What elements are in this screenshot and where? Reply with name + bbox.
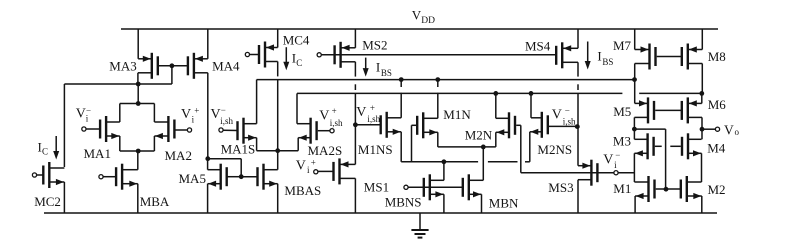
transistor M5 xyxy=(634,97,654,123)
svg-text:V: V xyxy=(552,107,562,122)
transistor MA1 xyxy=(100,116,120,142)
wire MS4 drain drop seg2 xyxy=(577,84,579,90)
transistor M3 xyxy=(634,133,653,159)
wire MA2 source drop xyxy=(153,136,155,151)
wire MS3 source to ground xyxy=(577,180,579,213)
svg-text:MS4: MS4 xyxy=(525,39,551,54)
svg-text:M8: M8 xyxy=(708,49,726,64)
svg-text:BS: BS xyxy=(381,68,392,78)
wire source bus y150.7 xyxy=(257,150,299,152)
wire MBNS drain riser xyxy=(443,162,445,181)
wire MA1S drain riser xyxy=(256,80,258,124)
wire MBAS gate lead xyxy=(241,176,257,178)
terminal MC4 gate bias xyxy=(245,52,249,56)
wire M7 drain to M5 xyxy=(634,64,636,104)
wire MA5 gate lead xyxy=(227,176,241,178)
svg-text:I: I xyxy=(376,60,380,75)
wire MS2 drain drop seg3 xyxy=(354,93,356,164)
svg-text:−: − xyxy=(221,105,226,115)
svg-text:−: − xyxy=(565,105,570,115)
node MA1/MA2 drain junction xyxy=(136,101,141,106)
svg-text:+: + xyxy=(194,105,199,115)
svg-text:V: V xyxy=(296,159,306,174)
wire M1N gate lead xyxy=(412,124,418,126)
wire MBNS/MBN gate lead xyxy=(408,186,463,188)
wire M1NS drain riser seg2 xyxy=(400,93,402,118)
terminal V_i- (MS3 gate) xyxy=(614,171,618,175)
svg-text:V: V xyxy=(412,8,422,23)
wire M2N gate drop xyxy=(520,125,522,172)
svg-text:I: I xyxy=(597,49,601,64)
wire M1NS gate lead xyxy=(355,124,380,126)
svg-text:V: V xyxy=(319,109,329,124)
wire M2N gate to MS3 gate / V_i- xyxy=(521,172,614,174)
transistor M1N xyxy=(417,112,438,138)
wire M8 drain drop xyxy=(701,64,703,94)
svg-text:i,sh: i,sh xyxy=(563,117,576,127)
node bus2/M8 junction xyxy=(699,91,704,96)
svg-text:V: V xyxy=(76,106,86,121)
transistor M8 xyxy=(682,44,703,70)
wire MBN source to ground xyxy=(481,194,483,213)
wire to MA5/MBAS gates xyxy=(208,158,241,160)
wire MS4 drain drop seg1 xyxy=(577,62,579,76)
svg-text:+: + xyxy=(370,103,375,113)
wire V_i,sh- gate lead xyxy=(223,129,237,131)
node tail junction xyxy=(481,145,486,150)
wire MC2 gate lead xyxy=(37,174,44,176)
svg-text:MA3: MA3 xyxy=(109,58,136,73)
wire M1N/M2N source bus xyxy=(438,146,496,148)
transistor MBAS xyxy=(258,164,278,190)
wire MA4 drain drop xyxy=(207,73,209,159)
wire MA2 drain riser xyxy=(153,104,155,123)
transistor M2N xyxy=(496,112,515,138)
svg-text:MC4: MC4 xyxy=(283,32,310,47)
wire M5 source drop xyxy=(633,117,635,129)
wire bus1 xyxy=(257,79,635,81)
wire MS4 drain drop seg3 xyxy=(577,93,579,166)
transistor MBN xyxy=(463,174,484,200)
transistor MBA xyxy=(116,164,138,190)
terminal MBNS/MBN gate bias xyxy=(404,185,408,189)
wire MA2S drain riser xyxy=(296,93,298,123)
wire MA3 drain drop xyxy=(137,73,139,84)
wire M2N source riser xyxy=(495,132,497,147)
svg-text:i,sh: i,sh xyxy=(367,114,380,124)
wire MC4 gate lead xyxy=(250,54,260,56)
svg-text:M1NS: M1NS xyxy=(358,142,393,157)
transistor MA1S xyxy=(238,118,257,144)
wire M7 source riser xyxy=(634,29,636,50)
wire V_i- to M1 drain xyxy=(618,172,634,174)
transistor MS2 xyxy=(335,42,356,68)
wire M4 gate stub xyxy=(670,145,681,147)
transistor M6 xyxy=(682,97,702,123)
svg-text:MA2S: MA2S xyxy=(308,143,343,158)
wire V_i,sh+ gate lead xyxy=(318,130,330,132)
svg-text:M5: M5 xyxy=(613,104,631,119)
wire MBNS drain bus seg2 xyxy=(488,161,518,163)
wire MA4 source riser xyxy=(207,29,209,59)
wire V_i- gate lead xyxy=(86,128,101,130)
wire V_DD rail xyxy=(121,28,718,30)
wire gate riser xyxy=(240,159,242,177)
node M1NS gate junction xyxy=(353,122,358,127)
wire MS2 source riser xyxy=(354,29,356,48)
wire MA1/MA2 top bus xyxy=(120,103,155,105)
svg-text:i,sh: i,sh xyxy=(330,118,343,128)
wire MC4 drain drop (below bus1) xyxy=(277,79,279,150)
svg-text:BS: BS xyxy=(602,57,613,67)
svg-text:−: − xyxy=(86,105,91,115)
wire MA2S source drop xyxy=(297,138,299,151)
node bus2/M2NS junction xyxy=(529,91,534,96)
wire M4 source to M2 drain xyxy=(701,153,703,182)
node M5/M3 junction xyxy=(632,127,637,132)
wire to MA5 drain xyxy=(207,159,209,170)
wire M2 source to ground xyxy=(701,196,703,213)
wire M1N drain riser seg2 xyxy=(437,93,439,119)
svg-text:MS1: MS1 xyxy=(364,179,389,194)
svg-text:V: V xyxy=(356,105,366,120)
svg-text:M4: M4 xyxy=(707,140,726,155)
node M1/M2 gate junction xyxy=(664,187,669,192)
transistor MA4 xyxy=(188,53,208,79)
svg-text:MA1: MA1 xyxy=(84,146,111,161)
node bus1/M7 junction xyxy=(632,77,637,82)
transistor MS4 xyxy=(556,42,578,68)
svg-text:C: C xyxy=(296,58,302,68)
wire MA1 drain riser xyxy=(119,104,121,123)
transistor MBNS xyxy=(424,174,444,200)
wire M7/M8 gate lead xyxy=(657,56,681,58)
svg-text:MA4: MA4 xyxy=(212,58,240,73)
terminal V_i+ input (MA2 gate) xyxy=(187,128,191,132)
wire V_i+ gate lead xyxy=(318,170,334,172)
transistor M4 xyxy=(682,133,702,159)
svg-text:M7: M7 xyxy=(613,38,632,53)
wire gate-to-drain cross drop xyxy=(171,66,173,84)
terminal V_i- input (MA1 gate) xyxy=(82,127,86,131)
transistor MA5 xyxy=(208,164,227,190)
current arrow I_BS (MS2) xyxy=(365,58,367,72)
terminal V_o output xyxy=(715,127,719,131)
wire MC2 source to ground xyxy=(63,182,65,213)
svg-text:−: − xyxy=(615,150,620,160)
node MA4/MA5 drain junction xyxy=(205,156,210,161)
node bus1/M1NS junction xyxy=(399,77,404,82)
wire M2NS drain riser xyxy=(530,93,532,117)
current arrow I_C (MC2) xyxy=(55,136,57,154)
svg-text:MC2: MC2 xyxy=(34,194,61,209)
transistor M2 xyxy=(681,176,702,202)
wire MBA source to ground xyxy=(137,184,139,213)
wire M1NS source drop xyxy=(400,132,402,162)
node bus1/M1N junction xyxy=(435,77,440,82)
node MA5/MBAS gate junction xyxy=(239,174,244,179)
wire MA5 source to ground xyxy=(207,184,209,213)
svg-text:MS3: MS3 xyxy=(548,180,573,195)
wire MBNS drain bus seg3 xyxy=(525,161,530,163)
transistor M2NS xyxy=(530,112,548,138)
wire MS1 source to ground xyxy=(354,178,356,213)
wire MC4 drain drop (above bus1) xyxy=(277,62,279,77)
wire M5/M6 gate lead xyxy=(655,109,681,111)
node MA3/MA4 gate junction xyxy=(170,63,175,68)
wire M2NS gate lead xyxy=(549,125,577,127)
ground xyxy=(411,213,428,238)
wire M3 source to M1 drain xyxy=(633,153,635,182)
wire to V_o xyxy=(702,128,715,130)
wire tail to MBA xyxy=(137,151,139,170)
transistor MC2 xyxy=(43,162,64,188)
wire MA1S source drop xyxy=(256,138,258,151)
node bus2/M2N junction xyxy=(493,91,498,96)
wire bus2 right part xyxy=(639,92,702,94)
svg-text:M2N: M2N xyxy=(465,127,493,142)
wire to MBAS drain xyxy=(277,151,279,170)
wire V_i+ gate lead xyxy=(175,129,187,131)
node MA1/MA2 source junction xyxy=(136,149,141,154)
svg-text:V: V xyxy=(724,123,734,138)
wire MA1 source drop xyxy=(119,136,121,151)
node M2NS gate / MS4 drain junction xyxy=(575,124,580,129)
terminal V_i,sh- (MA1S gate) xyxy=(219,128,223,132)
wire M1NS drain riser seg1 xyxy=(400,80,402,87)
wire M4 drain riser xyxy=(701,129,703,139)
svg-text:V: V xyxy=(181,107,191,122)
wire M3 drain riser xyxy=(633,129,635,139)
terminal MS2/MS4 gate bias xyxy=(317,53,321,57)
transistor M1NS xyxy=(381,112,402,138)
svg-text:MBNS: MBNS xyxy=(385,195,422,210)
transistor MS1 xyxy=(334,158,356,184)
svg-text:i,sh: i,sh xyxy=(220,116,233,126)
svg-text:M2: M2 xyxy=(708,182,726,197)
wire MA1/MA2 source bus xyxy=(120,150,155,152)
svg-text:M2NS: M2NS xyxy=(537,142,572,157)
wire MC4 source riser xyxy=(277,29,279,48)
wire M1N gate drop xyxy=(411,125,413,162)
wire M6 drain riser xyxy=(701,93,703,103)
svg-text:M6: M6 xyxy=(708,97,727,112)
wire M5 drain to gates xyxy=(634,128,665,130)
wire MS2-MS4 gate bus xyxy=(321,54,556,56)
svg-text:V: V xyxy=(603,152,613,167)
svg-text:MBA: MBA xyxy=(140,194,170,209)
svg-text:M1N: M1N xyxy=(443,107,471,122)
svg-text:MBN: MBN xyxy=(489,196,519,211)
svg-text:DD: DD xyxy=(421,16,435,26)
transistor MS3 xyxy=(578,160,597,186)
wire MBNS source to ground xyxy=(443,194,445,213)
svg-text:MA2: MA2 xyxy=(165,148,192,163)
terminal MC2 gate bias xyxy=(32,173,36,177)
transistor MC4 xyxy=(259,42,278,68)
svg-text:M3: M3 xyxy=(613,134,631,149)
wire M1N source drop xyxy=(437,132,439,147)
wire MA3 source riser xyxy=(137,29,139,59)
svg-text:M1: M1 xyxy=(613,181,631,196)
svg-text:MA1S: MA1S xyxy=(221,142,256,157)
node MBNS drain junction xyxy=(442,159,447,164)
node MC4 drain junction xyxy=(275,148,280,153)
wire MBNS drain bus seg1 xyxy=(401,161,478,163)
terminal MBA gate bias xyxy=(99,175,103,179)
wire M8 source riser xyxy=(701,29,703,50)
svg-text:o: o xyxy=(735,127,740,137)
wire M2N drain riser xyxy=(495,93,497,118)
transistor M1 xyxy=(634,176,654,202)
wire MBN drain riser xyxy=(482,147,484,180)
wire MS2 drain drop seg2 xyxy=(354,84,356,90)
node V_o node junction xyxy=(700,127,705,132)
wire MC2 drain riser xyxy=(63,84,65,167)
wire M1 source to ground xyxy=(634,196,636,213)
wire bus2 left part xyxy=(297,92,622,94)
wire to MC2 drain xyxy=(64,83,138,85)
transistor MA2 xyxy=(154,116,174,142)
wire MS4 source riser xyxy=(577,29,579,48)
wire M3 gate stub xyxy=(655,145,662,147)
terminal V_i,sh+ (MA2S gate) xyxy=(330,129,334,133)
transistor MA2S xyxy=(297,118,317,144)
wire MA3/MA4 gate lead xyxy=(159,65,188,67)
wire MBA gate lead xyxy=(103,176,116,178)
wire MS2 drain drop seg1 xyxy=(354,62,356,77)
transistor M7 xyxy=(635,44,656,70)
current arrow I_BS (MS4) xyxy=(587,42,589,65)
wire MBAS source to ground xyxy=(277,184,279,213)
wire ground rail xyxy=(44,212,717,214)
wire M1N drain riser seg1 xyxy=(437,80,439,87)
wire M6 source drop xyxy=(701,117,703,129)
terminal V_i+ (MS1 gate) xyxy=(314,170,318,174)
wire to MA1/MA2 drain bus xyxy=(137,84,139,104)
svg-text:MS2: MS2 xyxy=(362,38,387,53)
node MA3 drain junction xyxy=(136,82,141,87)
wire M2NS source drop xyxy=(529,132,531,162)
svg-text:+: + xyxy=(311,157,316,167)
svg-text:MA5: MA5 xyxy=(179,171,206,186)
svg-text:V: V xyxy=(211,107,221,122)
wire M1/M2 gate lead xyxy=(656,188,681,190)
wire M2N gate lead xyxy=(516,124,521,126)
wire cross horizontal xyxy=(138,83,172,85)
wire cascode gate drop xyxy=(665,129,667,189)
current arrow I_C (MC4) xyxy=(285,47,287,64)
svg-text:MBAS: MBAS xyxy=(284,183,321,198)
transistor MA3 xyxy=(138,53,158,79)
svg-text:+: + xyxy=(332,106,337,116)
svg-text:C: C xyxy=(42,147,48,157)
